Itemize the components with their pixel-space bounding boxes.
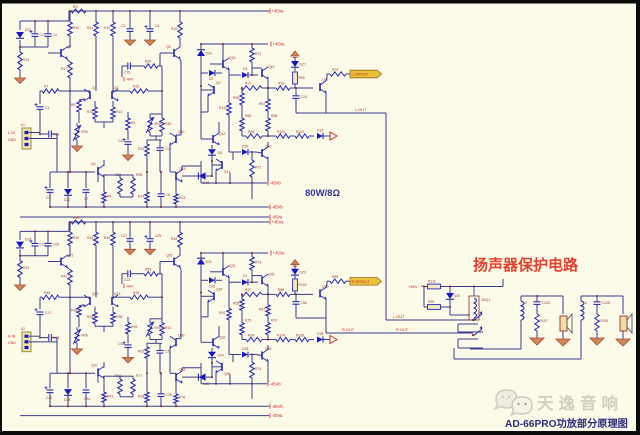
resistor R106 [295,337,309,341]
wire sense line [242,135,246,137]
wire Q15 base [210,271,223,273]
resistor R19 [18,52,22,70]
svg-text:DZ8: DZ8 [64,398,71,402]
wire output mid line [262,87,276,89]
svg-text:R76: R76 [179,396,185,400]
capacitor C38 [48,131,50,138]
svg-text:R66: R66 [248,130,254,134]
svg-text:VR2: VR2 [154,122,161,126]
transistor Q1 [89,91,91,99]
resistor R23 [174,194,178,204]
svg-text:D30: D30 [454,294,460,298]
wire base line [40,296,42,298]
capacitor C28 [45,242,52,244]
transistor Q19 [261,69,263,77]
trim pot VR8 [75,330,79,343]
transistor Q30 [175,338,177,346]
svg-text:+45Va: +45Va [273,251,286,256]
svg-text:R55: R55 [136,173,142,177]
wire ch1 line into relay [386,319,473,321]
svg-text:L2: L2 [523,301,527,305]
inductor L3 [581,301,584,320]
resistor R35 [130,295,148,299]
transistor Q31 [222,268,224,276]
wire lower base line [50,171,95,173]
power tag +45Va mid ch2 [270,251,272,256]
wire R12 down [112,222,114,232]
svg-text:C56: C56 [301,301,307,305]
trim pot VR6 [75,126,79,140]
resistor R51 [118,178,122,194]
wire R14 down [95,11,97,22]
svg-text:R77: R77 [136,374,142,378]
svg-text:Q31: Q31 [229,264,236,268]
resistor R99 box [428,305,441,310]
svg-text:R107: R107 [540,319,548,323]
svg-text:C17: C17 [45,311,51,315]
zener diode DZ6 [242,352,248,358]
resistor R111 box [428,284,441,289]
resistor R86 [276,292,290,296]
svg-text:L-SPOUT: L-SPOUT [352,72,370,77]
transistor Q20 [97,368,99,376]
transistor Q2 [213,86,215,94]
ground under R19 [15,285,26,291]
svg-text:D7: D7 [243,274,247,278]
transistor Q32 [212,338,214,346]
zener diode DZ7 [291,61,299,67]
svg-text:DZ7: DZ7 [300,63,307,67]
svg-text:Q19: Q19 [268,65,275,69]
resistor R26 [126,323,130,334]
relay contact 2 [473,329,482,336]
net label tag R-SPOUT [350,278,382,286]
svg-text:C2: C2 [121,24,125,28]
resistor R46 [178,232,182,247]
resistor R73 [250,257,254,270]
resistor R39 [71,220,86,224]
svg-text:R-OUT: R-OUT [342,328,355,332]
svg-text:R91: R91 [219,311,225,315]
svg-text:-45Vb: -45Vb [272,205,284,210]
transistor Q10 [175,135,177,143]
resistor R72 [250,160,254,177]
svg-text:R102: R102 [296,130,304,134]
svg-text:R75: R75 [245,319,251,323]
resistor R14 [94,22,98,36]
wire between pair [112,296,124,298]
wire R17 down [69,285,71,297]
zener diode D30 [198,374,205,381]
svg-text:R46: R46 [171,237,177,241]
svg-text:R86: R86 [278,288,284,292]
svg-text:D24: D24 [218,354,224,358]
wire Q6 base [160,261,174,263]
svg-text:R108: R108 [600,319,608,323]
capacitor C17 [37,311,44,313]
power tag +45Va mid ch1 [270,42,272,47]
svg-text:R36: R36 [71,308,77,312]
svg-text:D28: D28 [317,332,323,336]
net label tag L-SPOUT [350,70,382,78]
svg-text:R67: R67 [259,102,265,106]
wire speaker net top L2 [521,295,563,297]
resistor R13 [111,107,115,119]
svg-text:D26: D26 [209,284,215,288]
svg-text:R24: R24 [138,195,144,199]
wire -45Va bottom rail [20,216,269,218]
resistor R70 [266,323,270,335]
zener diode D10 [198,172,205,179]
wire emitter join [94,324,96,327]
svg-text:R69: R69 [245,114,251,118]
resistor R91 [227,309,231,320]
wire R99 loop [423,287,425,308]
resistor R55 [131,178,135,194]
ground under VR6 [72,349,83,355]
svg-text:R-IN: R-IN [8,335,16,339]
speaker L2 [560,316,567,331]
svg-text:C16: C16 [301,95,307,99]
svg-text:R20: R20 [145,60,151,64]
svg-text:R72: R72 [255,166,261,170]
capacitor C48 [48,334,50,341]
svg-text:R104: R104 [277,333,285,337]
svg-text:R111: R111 [428,280,436,284]
transistor Q3 [111,91,113,99]
capacitor C52 [125,344,132,346]
svg-text:R23: R23 [179,196,185,200]
wire R15 right [124,296,130,298]
wire column x201 down [200,293,202,343]
svg-text:R40: R40 [73,236,79,240]
resistor R42 [18,261,22,278]
wire lower line to Q18 [97,376,99,383]
wire Q7 connections [48,261,61,263]
svg-text:Q23: Q23 [114,292,121,296]
ground under R108 [590,338,604,345]
svg-text:VR8: VR8 [81,334,88,338]
resistor R34 [93,312,97,323]
resistor R53 [144,272,158,276]
resistor R17 [68,62,72,78]
resistor R31 [160,323,164,336]
resistor R100 box [293,279,298,291]
wire VR2 loop box [150,113,162,115]
capacitor C7 [83,189,90,191]
transistor Q26 [319,289,321,297]
capacitor C4 [45,33,52,35]
svg-text:R38: R38 [116,315,122,319]
wire -45Vb rail lower [50,405,269,407]
wire Q19 emitter to output line [267,79,269,88]
svg-text:R112: R112 [219,106,227,110]
power tag -45Vb lower ch2 [269,404,271,409]
transistor Q16 [261,149,263,157]
resistor R52 [145,347,149,358]
wire speaker feed 2 [580,320,582,359]
resistor R89 [330,279,346,283]
svg-text:Q26: Q26 [322,284,329,288]
capacitor C29 [147,238,154,240]
resistor R38 [111,312,115,323]
svg-text:Q4: Q4 [91,162,96,166]
wire left input top row [20,20,69,22]
connector A1 [22,128,31,149]
wire emitter join [94,119,96,122]
capacitor C6 [147,28,154,30]
svg-text:L3: L3 [583,301,587,305]
svg-text:R16: R16 [171,27,177,31]
svg-text:R33: R33 [87,110,93,114]
svg-text:R56: R56 [233,96,239,100]
wire -45Vb rail upper [201,383,267,385]
zener diode DZ9 [291,269,299,275]
transistor Q15 [222,60,224,68]
resistor R33 [93,107,97,119]
svg-text:+45Va: +45Va [272,220,285,225]
transistor Q17 [319,83,321,91]
resistor R67 [266,99,270,111]
wire ch1 output line L-OUT [296,112,386,114]
svg-text:DZ5: DZ5 [242,145,249,149]
speaker L3 [620,316,627,331]
wire connector to input [29,132,40,134]
wire column x201 down [200,86,202,139]
power tag -40V ch1 [123,77,125,81]
wire contact bus 1 [458,323,478,325]
transistor Q6 [173,49,175,57]
wire Q7 connections [48,52,61,54]
svg-text:R-OUT: R-OUT [396,328,409,332]
resistor R87 [266,305,270,316]
resistor R41 [68,270,72,285]
capacitor C31 [83,389,90,391]
wire R20 ends [140,65,144,67]
svg-text:GND: GND [8,138,16,142]
diode D2 [209,70,215,76]
svg-text:Q25: Q25 [166,254,173,258]
svg-text:C29: C29 [155,234,161,238]
capacitor C12 [157,147,164,149]
svg-text:DZ6: DZ6 [242,347,249,351]
svg-text:VR4: VR4 [154,326,161,330]
capacitor C8 [158,193,165,195]
svg-text:C3: C3 [40,33,44,37]
wire Q14 emitter [215,171,217,183]
svg-text:Q32: Q32 [219,335,226,339]
wire +45V rail 2 [201,43,268,45]
wire relay output bus [453,348,455,359]
zener diode DZ1 [16,32,24,38]
resistor R6 [77,100,81,112]
transistor Q35 [221,363,223,371]
svg-text:D6: D6 [218,151,222,155]
svg-text:Q12: Q12 [219,132,226,136]
resistor R56 [240,93,244,105]
resistor R100 [276,134,290,138]
resistor R7 [42,89,59,93]
svg-text:Q22: Q22 [92,292,99,296]
svg-text:C8: C8 [166,193,170,197]
transistor Q36 [261,352,263,360]
ground under C6 [145,249,156,255]
wire R79 to net tag [346,280,350,282]
svg-text:R31: R31 [165,326,171,330]
svg-text:R22: R22 [138,147,144,151]
ground under C42 [123,155,134,161]
svg-text:R12: R12 [104,26,110,30]
wire to output column [290,293,313,295]
power tag -45Va ch2 [269,413,271,418]
inductor L2 [521,301,524,320]
svg-text:R79: R79 [332,68,338,72]
wire Q16 column [267,368,269,372]
resistor R81 [118,379,122,394]
wire Q17 collector to R79 [326,284,327,288]
svg-text:R37: R37 [245,82,251,86]
svg-text:R64: R64 [248,333,254,337]
svg-text:R39: R39 [73,216,79,220]
transistor Q24 [213,292,215,300]
resistor R28 [145,392,149,402]
wire Q17 collector to R79 [326,77,327,81]
power tag -45Vb lower ch1 [269,205,271,210]
resistor R40 [68,232,72,245]
wire R12 down [112,11,114,22]
diode D6 vertical [208,149,216,155]
resistor R20 [144,64,158,68]
capacitor C108 [596,296,598,301]
resistor R79 [330,72,346,76]
svg-text:Q39: Q39 [268,272,275,276]
wire R15 right [124,90,130,92]
wire base line [40,90,42,92]
svg-text:C4: C4 [53,33,57,37]
svg-text:R14: R14 [87,26,93,30]
resistor R102 [295,134,309,138]
ground under VR6 [72,146,83,152]
svg-text:C108: C108 [602,301,610,305]
svg-text:R5: R5 [131,121,135,125]
wire R10 leads [69,222,71,232]
capacitor C16 [293,95,300,97]
zener diode DZ3 [16,242,24,248]
capacitor C2 [127,28,134,30]
wire R51 R55 loop [120,174,133,176]
resistor R108 [595,314,599,331]
wire Q6 base [160,52,174,54]
resistor R64 [246,337,262,341]
wire to D14 [290,339,295,341]
zener diode D20 [197,50,205,56]
resistor R74 [250,362,254,378]
arrow to protection ch1 [330,132,337,140]
resistor R76 [174,394,178,403]
svg-text:Q17: Q17 [322,78,329,82]
resistor R16 [178,22,182,38]
wire Q6 emitter down [180,267,181,270]
power tag -40V ch2 [123,284,125,288]
svg-text:C42: C42 [118,139,124,143]
svg-text:-45Vb: -45Vb [272,404,284,409]
wire -45Vb rail upper [201,182,267,184]
wire R20 ends [140,273,144,275]
wire contact bus 2 [458,338,478,340]
svg-text:-45Vb: -45Vb [270,381,282,386]
svg-text:R100: R100 [277,130,285,134]
svg-text:Q10: Q10 [178,130,185,134]
svg-text:DZ9: DZ9 [300,270,307,274]
svg-text:R7: R7 [44,85,48,89]
resistor R44 [94,232,98,245]
svg-text:Q30: Q30 [178,333,185,337]
resistor R36 [77,306,81,317]
capacitor C25 [158,393,165,395]
svg-text:R48: R48 [44,291,50,295]
svg-text:R55: R55 [233,302,239,306]
svg-text:R68: R68 [271,114,277,118]
resistor R37 [241,86,262,90]
svg-text:Q3: Q3 [114,86,119,90]
wire Q16 column [267,166,269,170]
svg-text:R17: R17 [61,67,67,71]
svg-text:R28: R28 [138,394,144,398]
trim pot VR2 loop [148,118,152,132]
svg-text:R90: R90 [299,76,305,80]
wire cap bottoms [20,46,48,48]
svg-text:GND: GND [8,341,16,345]
svg-text:L-IN: L-IN [8,131,15,135]
wire -45Vb rail lower [50,206,269,208]
capacitor C3 [32,33,39,35]
net label +45V relay [421,285,424,287]
wire lower rail connections [49,172,51,188]
wire +45V top rail [69,10,269,12]
transistor Q7 [60,49,62,57]
power arrow ch2 output stage [291,260,299,265]
svg-text:D4: D4 [243,67,247,71]
resistor R76 [276,86,290,90]
capacitor C27 [127,238,134,240]
wire output mid line [262,293,276,295]
transistor Q33 [175,373,177,381]
svg-text:R44: R44 [87,236,93,240]
wire between pair [112,90,124,92]
svg-text:C6: C6 [155,24,159,28]
resistor R43 [102,392,106,402]
resistor R30 [160,118,164,132]
transistor Q14 [221,161,223,169]
relay JDQ1 [469,296,479,320]
resistor R48 [42,295,59,299]
svg-text:AD-66PRO功放部分原理图: AD-66PRO功放部分原理图 [505,417,628,430]
resistor R104 [276,337,290,341]
svg-text:D14: D14 [317,129,323,133]
svg-text:-45Va: -45Va [272,413,284,418]
svg-text:DZ2: DZ2 [64,198,71,202]
svg-text:R74: R74 [255,367,261,371]
power tag -45Vb ch1 [267,181,269,186]
zener diode DZ5 [242,149,248,155]
diode D7 [242,279,248,285]
wire connector to input [29,335,40,337]
resistor R10 [68,22,72,36]
power tag +45Va top ch2 [269,220,271,225]
arrow to protection ch2 [330,336,337,344]
svg-text:R76: R76 [278,82,284,86]
svg-text:Q2: Q2 [216,81,221,85]
